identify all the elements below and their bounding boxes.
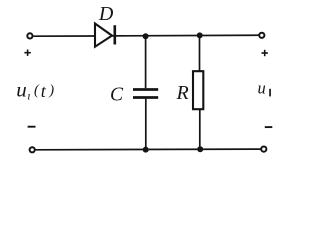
svg-text:C: C <box>110 84 124 105</box>
svg-text:u: u <box>258 79 266 98</box>
wire resistor lower lead <box>199 109 201 149</box>
svg-text:D: D <box>98 3 114 25</box>
node junction bottom capacitor <box>143 147 149 153</box>
wire top middle-right segment <box>112 34 259 37</box>
svg-text:t: t <box>41 81 47 101</box>
capacitor C <box>133 90 158 98</box>
resistor R <box>193 71 203 109</box>
polarity plus output <box>262 50 268 56</box>
wire bottom <box>36 148 261 151</box>
wire top-left segment <box>33 35 95 37</box>
terminal output top <box>259 33 264 38</box>
terminal input bottom <box>30 147 35 152</box>
label u_i(t) input voltage <box>16 78 54 103</box>
terminal input top <box>27 33 32 38</box>
svg-text:R: R <box>176 82 189 104</box>
svg-text:u: u <box>16 78 27 102</box>
wire resistor upper lead <box>199 35 201 71</box>
wire capacitor upper lead <box>145 36 147 88</box>
svg-text:(: ( <box>34 83 40 99</box>
node junction bottom resistor <box>197 146 203 152</box>
polarity minus input <box>28 126 36 128</box>
label u_1 output voltage <box>258 79 271 98</box>
wire capacitor lower lead <box>145 99 147 150</box>
svg-text:): ) <box>48 83 54 99</box>
polarity minus output <box>265 126 273 128</box>
diode D <box>95 24 115 47</box>
terminal output bottom <box>261 147 266 152</box>
svg-text:ı: ı <box>27 88 30 102</box>
node junction top capacitor <box>143 33 149 39</box>
node junction top resistor <box>197 32 203 38</box>
polarity plus input <box>24 50 30 56</box>
